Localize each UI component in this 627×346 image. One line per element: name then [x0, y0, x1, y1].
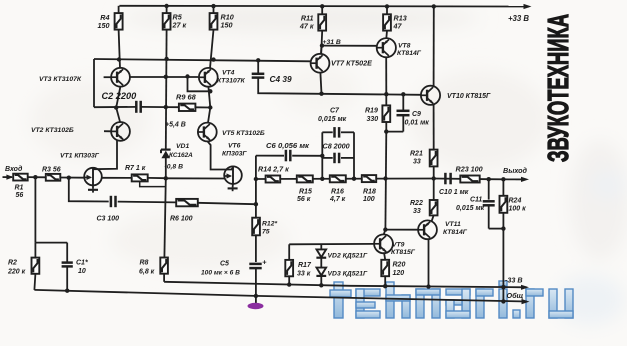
svg-text:VT7 КТ502Е: VT7 КТ502Е — [331, 59, 372, 68]
svg-text:33: 33 — [413, 159, 421, 166]
svg-text:R7 1 к: R7 1 к — [125, 165, 146, 172]
svg-text:R19: R19 — [365, 108, 378, 115]
svg-text:R16: R16 — [331, 189, 344, 196]
svg-text:С8 2000: С8 2000 — [323, 142, 350, 151]
svg-text:VT9: VT9 — [392, 242, 405, 249]
svg-text:R9 68: R9 68 — [176, 93, 197, 102]
svg-text:VD2 КД521Г: VD2 КД521Г — [328, 253, 369, 260]
svg-text:С11: С11 — [470, 197, 482, 204]
svg-text:-33 В: -33 В — [505, 276, 523, 285]
svg-text:0,015 мк: 0,015 мк — [318, 116, 347, 123]
svg-text:+31 В: +31 В — [323, 39, 341, 46]
svg-text:+5,4 В: +5,4 В — [165, 122, 186, 129]
svg-text:Общ: Общ — [507, 291, 524, 300]
svg-text:VT2 КТ3102Б: VT2 КТ3102Б — [31, 127, 74, 134]
svg-text:0,01 мк: 0,01 мк — [405, 120, 430, 127]
svg-text:220 к: 220 к — [7, 269, 26, 276]
svg-text:С4 39: С4 39 — [270, 74, 293, 84]
svg-text:33 к: 33 к — [297, 271, 311, 278]
svg-text:R24: R24 — [509, 198, 522, 205]
svg-text:100: 100 — [363, 196, 375, 203]
svg-text:47: 47 — [393, 22, 403, 31]
svg-text:R17: R17 — [298, 262, 312, 269]
svg-text:VD3 КД521Г: VD3 КД521Г — [328, 271, 369, 278]
svg-text:Вход: Вход — [5, 165, 23, 173]
svg-text:КС162А: КС162А — [169, 152, 193, 159]
svg-text:Выход: Выход — [503, 166, 528, 175]
svg-text:VT4: VT4 — [222, 70, 235, 77]
svg-text:330: 330 — [367, 116, 379, 123]
svg-text:56 к: 56 к — [297, 196, 311, 203]
svg-text:КТ814Г: КТ814Г — [443, 229, 468, 236]
svg-text:6,8 к: 6,8 к — [139, 269, 155, 276]
svg-text:120: 120 — [393, 270, 405, 277]
svg-text:R22: R22 — [410, 200, 423, 207]
svg-text:VT5 КТ3102Б: VT5 КТ3102Б — [222, 130, 265, 137]
svg-text:С3 100: С3 100 — [97, 216, 120, 223]
svg-text:R6 100: R6 100 — [170, 216, 193, 223]
svg-text:С1*: С1* — [76, 260, 88, 267]
svg-text:С9: С9 — [412, 111, 421, 118]
svg-text:+: + — [262, 257, 267, 266]
svg-text:КТ814Г: КТ814Г — [397, 50, 422, 57]
svg-text:27 к: 27 к — [172, 21, 187, 30]
svg-text:С10 1 мк: С10 1 мк — [439, 189, 469, 196]
svg-text:+33 В: +33 В — [508, 14, 529, 23]
svg-text:С6 0,056 мк: С6 0,056 мк — [266, 141, 310, 150]
svg-text:R2: R2 — [8, 260, 17, 267]
svg-text:75: 75 — [262, 229, 270, 236]
svg-text:4,7 к: 4,7 к — [329, 196, 346, 203]
svg-text:ЗВУКОТЕХНИКА: ЗВУКОТЕХНИКА — [543, 14, 575, 162]
svg-text:R8: R8 — [140, 260, 149, 267]
svg-text:VT1 КП303Г: VT1 КП303Г — [60, 153, 100, 160]
svg-text:-0,8 В: -0,8 В — [165, 164, 184, 171]
svg-text:R14 2,7 к: R14 2,7 к — [258, 165, 289, 174]
svg-text:R21: R21 — [410, 151, 423, 158]
svg-text:VT3 КТ3107К: VT3 КТ3107К — [39, 76, 82, 83]
svg-text:100 мк × 6 В: 100 мк × 6 В — [201, 270, 240, 277]
svg-text:VT8: VT8 — [398, 43, 411, 50]
svg-text:VD1: VD1 — [176, 143, 189, 150]
svg-text:47 к: 47 к — [299, 22, 314, 31]
svg-text:КП303Г: КП303Г — [222, 151, 247, 158]
svg-text:R1: R1 — [15, 185, 24, 192]
svg-text:100 к: 100 к — [509, 206, 527, 213]
svg-text:R20: R20 — [393, 262, 406, 269]
svg-text:R12*: R12* — [262, 221, 277, 228]
svg-text:R23 100: R23 100 — [456, 165, 483, 174]
svg-text:150: 150 — [98, 21, 110, 30]
svg-text:150: 150 — [221, 21, 233, 30]
svg-text:VT10 КТ815Г: VT10 КТ815Г — [447, 93, 491, 100]
svg-text:R18: R18 — [363, 189, 376, 196]
svg-text:КТ3107К: КТ3107К — [217, 78, 246, 85]
svg-text:R3 56: R3 56 — [42, 167, 61, 174]
svg-text:10: 10 — [78, 268, 86, 275]
svg-text:КТ815Г: КТ815Г — [391, 249, 416, 256]
svg-text:0,015 мк: 0,015 мк — [456, 205, 485, 212]
svg-text:VT11: VT11 — [445, 221, 461, 228]
svg-text:56: 56 — [16, 192, 24, 199]
svg-text:R15: R15 — [299, 189, 312, 196]
svg-text:VT6: VT6 — [228, 143, 241, 150]
svg-text:С5: С5 — [220, 261, 229, 268]
svg-text:С2 2200: С2 2200 — [102, 91, 138, 101]
svg-text:С7: С7 — [330, 108, 340, 115]
svg-text:33: 33 — [413, 208, 421, 215]
